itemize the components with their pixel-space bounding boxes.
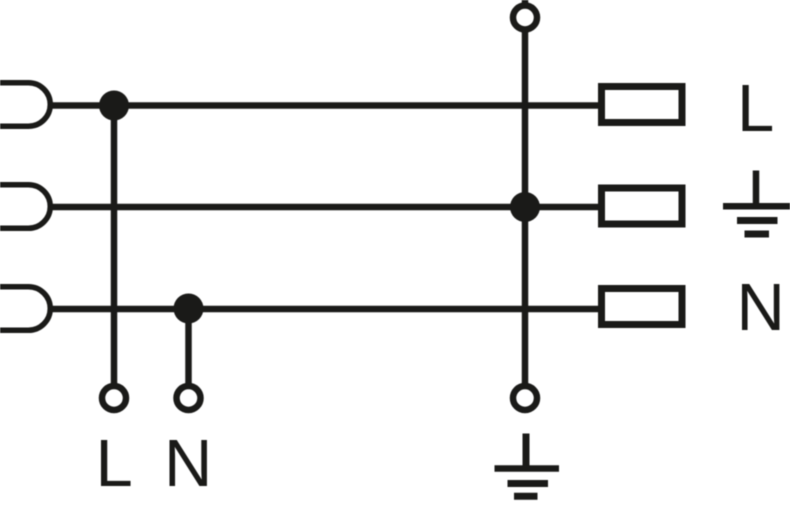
wire L row top xyxy=(51,102,598,109)
terminal circle top earth xyxy=(513,6,537,30)
terminal block output earth xyxy=(602,188,683,224)
junction node N xyxy=(174,294,204,324)
junction node L xyxy=(99,91,129,121)
ground symbol bottom bar2 xyxy=(508,480,549,487)
terminal block output N xyxy=(602,289,683,325)
svg-text:L: L xyxy=(96,426,133,501)
plug contact P1 (line input L) xyxy=(0,83,50,127)
terminal circle bottom earth xyxy=(513,386,537,410)
junction node earth xyxy=(510,192,540,222)
ground symbol right bar2 xyxy=(737,217,778,224)
wire vertical earth bus xyxy=(522,31,529,384)
wire vertical N tap xyxy=(185,309,192,384)
ground symbol right stem xyxy=(753,171,760,207)
wire vertical earth stub top xyxy=(522,0,529,4)
wire N row bottom xyxy=(51,306,598,313)
terminal block output L xyxy=(602,87,683,123)
terminal circle bottom N xyxy=(177,386,201,410)
svg-text:N: N xyxy=(737,270,785,345)
plug contact P2 xyxy=(0,185,50,229)
ground symbol right bar1 xyxy=(723,203,790,210)
wire middle row xyxy=(51,204,598,211)
svg-text:N: N xyxy=(164,426,212,501)
terminal circle bottom L xyxy=(102,386,126,410)
svg-text:L: L xyxy=(737,71,774,146)
ground symbol bottom bar3 xyxy=(514,493,538,500)
ground symbol bottom bar1 xyxy=(495,465,560,472)
wire vertical L tap xyxy=(111,106,118,384)
plug contact P3 (line input N) xyxy=(0,287,50,331)
ground symbol bottom stem xyxy=(523,434,530,469)
ground symbol right bar3 xyxy=(745,231,770,238)
